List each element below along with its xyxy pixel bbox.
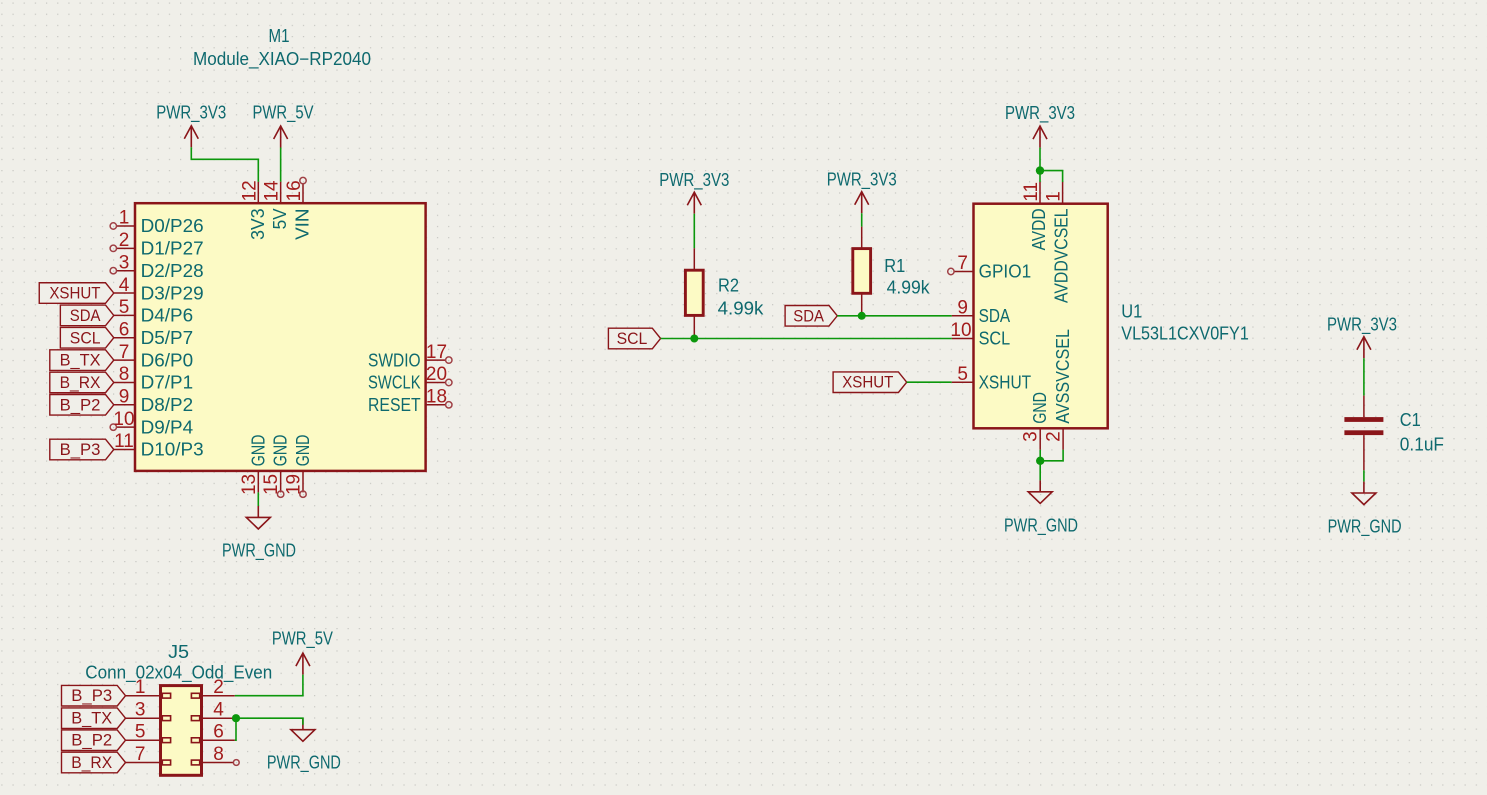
label XSHUT (net) xyxy=(833,372,907,393)
svg-text:SDA: SDA xyxy=(70,306,101,325)
svg-text:D6/P0: D6/P0 xyxy=(141,350,194,370)
svg-text:D9/P4: D9/P4 xyxy=(141,417,194,437)
power symbol PWR_3V3 (U1) xyxy=(1005,103,1075,148)
value Module_XIAO-RP2040 xyxy=(193,49,371,70)
svg-text:B_RX: B_RX xyxy=(71,753,112,772)
power symbol PWR_3V3 (R2) xyxy=(659,170,729,214)
svg-text:19: 19 xyxy=(284,474,305,495)
svg-text:16: 16 xyxy=(284,180,305,201)
M1 pin 6 D5/P7 xyxy=(114,319,193,348)
U1 pin 11 AVDD xyxy=(1021,182,1049,250)
label SDA (net) xyxy=(785,306,837,327)
U1 pin 7 GPIO1 xyxy=(948,253,1031,282)
svg-text:PWR_3V3: PWR_3V3 xyxy=(1005,103,1075,124)
wire PWR_3V3 to R2 xyxy=(693,214,695,249)
svg-text:GND: GND xyxy=(1030,392,1050,424)
svg-text:SCL: SCL xyxy=(617,329,648,348)
svg-text:2: 2 xyxy=(213,677,224,698)
svg-text:AVDDVCSEL: AVDDVCSEL xyxy=(1052,208,1072,303)
M1 pin 19 GND xyxy=(284,435,314,498)
wire XSHUT net xyxy=(907,381,952,383)
value Conn_02x04_Odd_Even xyxy=(85,662,272,683)
svg-text:R1: R1 xyxy=(884,256,905,276)
label XSHUT (M1 pin 4) xyxy=(39,283,114,304)
M1 pin 15 GND xyxy=(261,435,291,498)
svg-text:XSHUT: XSHUT xyxy=(979,372,1032,392)
svg-text:PWR_5V: PWR_5V xyxy=(253,103,314,124)
wire PWR_3V3 to pin 12 xyxy=(191,147,258,181)
M1 pin 4 D3/P29 xyxy=(114,275,204,304)
svg-text:11: 11 xyxy=(114,431,134,452)
M1 pin 13 GND xyxy=(239,435,268,495)
svg-text:0.1uF: 0.1uF xyxy=(1400,435,1444,455)
J5 pin 8 xyxy=(191,744,239,765)
J5 pin 6 xyxy=(191,722,234,743)
svg-text:11: 11 xyxy=(1021,182,1042,202)
svg-text:1: 1 xyxy=(1044,191,1065,202)
M1 pin 17 SWDIO xyxy=(368,342,452,371)
M1 pin 10 D9/P4 xyxy=(110,409,193,438)
svg-text:3: 3 xyxy=(135,700,146,721)
svg-text:3: 3 xyxy=(119,252,130,273)
wire C1 to ground xyxy=(1363,470,1365,481)
svg-text:7: 7 xyxy=(135,744,146,765)
svg-text:PWR_3V3: PWR_3V3 xyxy=(1327,315,1397,336)
svg-text:17: 17 xyxy=(426,342,447,363)
label B_P2 (J5) xyxy=(62,730,126,751)
svg-text:R2: R2 xyxy=(718,276,739,296)
U1 pin 1 AVDDVCSEL xyxy=(1044,182,1072,303)
svg-text:XSHUT: XSHUT xyxy=(49,284,100,303)
label SCL (net) xyxy=(608,328,660,349)
reference J5 xyxy=(168,642,189,662)
svg-text:D3/P29: D3/P29 xyxy=(141,283,204,303)
svg-text:1: 1 xyxy=(119,208,130,229)
label B_RX (M1 pin 8) xyxy=(50,372,114,393)
svg-text:2: 2 xyxy=(119,230,130,251)
svg-text:7: 7 xyxy=(957,253,968,274)
power symbol PWR_5V (M1) xyxy=(253,103,314,148)
svg-text:PWR_GND: PWR_GND xyxy=(1004,515,1078,536)
label B_RX (J5) xyxy=(62,752,126,773)
svg-text:D1/P27: D1/P27 xyxy=(141,239,204,259)
label B_TX (M1 pin 7) xyxy=(50,350,114,371)
junction U1 GND xyxy=(1036,457,1044,465)
J5 pin 7 xyxy=(126,744,171,765)
module M1 body xyxy=(135,203,426,471)
reference U1 xyxy=(1121,302,1142,322)
svg-text:B_P3: B_P3 xyxy=(71,686,112,705)
U1 pin 3 GND xyxy=(1021,392,1051,450)
wire PWR_5V to pin 14 xyxy=(280,148,282,182)
reference M1 xyxy=(269,26,290,46)
connector J5 body xyxy=(161,686,202,776)
svg-text:B_P2: B_P2 xyxy=(60,395,101,414)
M1 pin 16 VIN xyxy=(284,177,313,240)
resistor R2 xyxy=(685,248,764,338)
svg-text:B_TX: B_TX xyxy=(60,351,101,370)
M1 pin 20 SWCLK xyxy=(368,364,452,393)
svg-text:D5/P7: D5/P7 xyxy=(141,328,194,348)
svg-text:7: 7 xyxy=(119,342,130,363)
svg-text:SWDIO: SWDIO xyxy=(368,350,421,370)
svg-text:GND: GND xyxy=(248,435,268,467)
svg-text:D8/P2: D8/P2 xyxy=(141,395,194,415)
svg-text:2: 2 xyxy=(1044,431,1065,442)
wire J5 pin 2 to PWR_5V xyxy=(235,675,303,696)
M1 pin 11 D10/P3 xyxy=(114,431,204,460)
ground PWR_GND (M1) xyxy=(222,506,296,561)
J5 pin 3 xyxy=(126,700,171,721)
power symbol PWR_3V3 (C1) xyxy=(1327,315,1397,359)
svg-text:B_RX: B_RX xyxy=(60,373,101,392)
svg-text:XSHUT: XSHUT xyxy=(842,373,893,392)
M1 pin 7 D6/P0 xyxy=(114,342,193,371)
svg-text:13: 13 xyxy=(239,474,260,495)
svg-text:5V: 5V xyxy=(270,208,290,229)
svg-text:10: 10 xyxy=(950,320,971,341)
wire PWR_3V3 to R1 xyxy=(861,213,863,227)
ground PWR_GND (J5) xyxy=(267,718,341,773)
resistor R1 xyxy=(853,227,931,316)
svg-text:5: 5 xyxy=(135,722,146,743)
wire PWR_3V3 to C1 xyxy=(1363,358,1365,395)
value VL53L1CXV0FY1 xyxy=(1121,324,1249,344)
wire U1 GND pins xyxy=(1040,450,1063,481)
svg-text:VL53L1CXV0FY1: VL53L1CXV0FY1 xyxy=(1121,324,1249,344)
svg-text:18: 18 xyxy=(426,387,447,408)
svg-text:PWR_GND: PWR_GND xyxy=(267,752,341,773)
svg-text:6: 6 xyxy=(119,319,130,340)
ground PWR_GND (C1) xyxy=(1328,482,1402,538)
J5 pin 2 xyxy=(191,677,234,698)
M1 pin 5 D4/P6 xyxy=(114,297,193,326)
svg-text:C1: C1 xyxy=(1400,410,1421,430)
svg-text:Conn_02x04_Odd_Even: Conn_02x04_Odd_Even xyxy=(85,662,272,683)
svg-text:B_P2: B_P2 xyxy=(71,731,112,750)
power symbol PWR_3V3 (M1) xyxy=(156,103,226,148)
svg-text:9: 9 xyxy=(957,298,968,319)
svg-text:AVSSVCSEL: AVSSVCSEL xyxy=(1053,329,1073,424)
svg-text:RESET: RESET xyxy=(368,395,421,415)
svg-text:D0/P26: D0/P26 xyxy=(141,216,204,236)
M1 pin 12 3V3 xyxy=(239,180,267,240)
svg-text:U1: U1 xyxy=(1121,302,1142,322)
svg-text:B_P3: B_P3 xyxy=(60,440,101,459)
power symbol PWR_3V3 (R1) xyxy=(827,170,897,214)
svg-text:1: 1 xyxy=(135,677,146,698)
svg-text:20: 20 xyxy=(426,364,447,385)
M1 pin 9 D8/P2 xyxy=(114,387,193,416)
svg-text:M1: M1 xyxy=(269,26,290,46)
svg-text:SDA: SDA xyxy=(793,306,824,325)
svg-text:PWR_3V3: PWR_3V3 xyxy=(659,170,729,191)
svg-text:10: 10 xyxy=(113,409,134,430)
svg-text:PWR_3V3: PWR_3V3 xyxy=(156,103,226,124)
svg-text:5: 5 xyxy=(957,364,968,385)
J5 pin 4 xyxy=(191,700,234,721)
M1 pin 18 RESET xyxy=(368,387,452,416)
svg-text:J5: J5 xyxy=(168,642,189,662)
svg-text:SCL: SCL xyxy=(979,329,1011,349)
wire SDA net xyxy=(837,315,952,317)
svg-text:GND: GND xyxy=(293,435,313,467)
svg-text:GPIO1: GPIO1 xyxy=(979,262,1032,282)
M1 pin 1 D0/P26 xyxy=(110,208,204,237)
capacitor C1 xyxy=(1344,396,1444,471)
svg-text:8: 8 xyxy=(213,744,224,765)
svg-text:5: 5 xyxy=(119,297,130,318)
svg-text:D2/P28: D2/P28 xyxy=(141,261,204,281)
svg-text:4.99k: 4.99k xyxy=(718,298,765,318)
label B_TX (J5) xyxy=(62,708,126,729)
svg-text:14: 14 xyxy=(262,180,283,202)
U1 pin 2 AVSSVCSEL xyxy=(1044,329,1074,450)
J5 pin 1 xyxy=(126,677,171,698)
junction R1/SDA xyxy=(858,312,866,320)
label SCL (M1 pin 6) xyxy=(60,327,113,348)
svg-text:B_TX: B_TX xyxy=(71,709,112,728)
junction U1 3V3 xyxy=(1036,166,1044,174)
svg-text:12: 12 xyxy=(239,180,260,201)
svg-text:8: 8 xyxy=(119,364,130,385)
svg-text:9: 9 xyxy=(119,387,130,408)
junction R2/SCL xyxy=(690,335,698,343)
U1 pin 10 SCL xyxy=(950,320,1010,349)
U1 pin 5 XSHUT xyxy=(952,364,1031,393)
M1 pin 8 D7/P1 xyxy=(114,364,193,393)
power symbol PWR_5V (J5) xyxy=(272,629,333,675)
svg-text:AVDD: AVDD xyxy=(1029,208,1049,250)
svg-text:D7/P1: D7/P1 xyxy=(141,373,194,393)
label SDA (M1 pin 5) xyxy=(60,305,113,326)
svg-text:4.99k: 4.99k xyxy=(887,277,931,297)
junction J5 pin 4 xyxy=(232,714,240,722)
svg-text:D4/P6: D4/P6 xyxy=(141,306,194,326)
U1 pin 9 SDA xyxy=(952,298,1010,327)
label B_P3 (M1 pin 11) xyxy=(50,439,114,460)
svg-text:4: 4 xyxy=(213,700,224,721)
wire J5 pin 4 to pin 6 xyxy=(235,718,236,740)
svg-text:SCL: SCL xyxy=(70,328,101,347)
svg-text:3: 3 xyxy=(1021,431,1042,442)
label B_P3 (J5) xyxy=(62,685,126,706)
label B_P2 (M1 pin 9) xyxy=(50,395,114,416)
svg-text:6: 6 xyxy=(213,722,224,743)
svg-text:PWR_3V3: PWR_3V3 xyxy=(827,170,897,191)
svg-text:4: 4 xyxy=(119,275,130,296)
wire J5 pin 4 to ground xyxy=(235,718,303,725)
wire SCL net xyxy=(661,338,952,340)
svg-text:SWCLK: SWCLK xyxy=(368,373,421,393)
M1 pin 2 D1/P27 xyxy=(110,230,204,258)
wire pin 13 to ground xyxy=(257,492,259,506)
IC U1 body xyxy=(974,204,1108,429)
J5 pin 5 xyxy=(126,722,171,743)
svg-text:PWR_GND: PWR_GND xyxy=(222,540,296,561)
ground PWR_GND (U1) xyxy=(1004,480,1078,536)
svg-text:PWR_5V: PWR_5V xyxy=(272,629,333,650)
svg-text:SDA: SDA xyxy=(979,306,1011,326)
svg-text:3V3: 3V3 xyxy=(248,208,268,240)
svg-text:D10/P3: D10/P3 xyxy=(141,440,204,460)
M1 pin 3 D2/P28 xyxy=(110,252,204,281)
svg-text:Module_XIAO−RP2040: Module_XIAO−RP2040 xyxy=(193,49,371,70)
M1 pin 14 5V xyxy=(262,180,291,229)
svg-text:VIN: VIN xyxy=(293,208,313,240)
svg-text:GND: GND xyxy=(271,435,291,467)
wire PWR_3V3 to U1 pins xyxy=(1040,148,1063,182)
svg-text:15: 15 xyxy=(261,474,282,495)
svg-text:PWR_GND: PWR_GND xyxy=(1328,516,1402,537)
